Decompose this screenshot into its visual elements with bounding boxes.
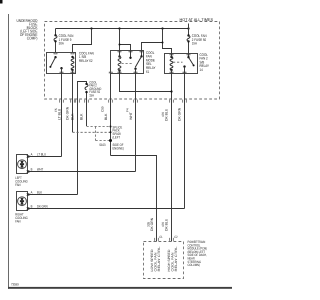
svg-text:WHT: WHT [37, 167, 43, 171]
svg-text:LT BLU: LT BLU [37, 152, 46, 156]
svg-text:470: 470 [161, 222, 165, 227]
svg-text:C1: C1 [159, 235, 162, 239]
svg-text:15A: 15A [192, 42, 198, 46]
svg-text:14: 14 [200, 68, 203, 72]
svg-text:ENGINE): ENGINE) [113, 147, 124, 151]
svg-text:S103: S103 [99, 143, 105, 147]
svg-text:BLK: BLK [71, 113, 75, 120]
svg-text:FAN: FAN [15, 183, 21, 187]
svg-text:WHT: WHT [129, 112, 133, 120]
svg-text:LT BLU: LT BLU [57, 108, 61, 120]
svg-text:F5: F5 [54, 108, 58, 112]
svg-text:335: 335 [146, 222, 150, 227]
svg-text:BLK: BLK [80, 113, 84, 120]
svg-text:HOT AT ALL TIMES: HOT AT ALL TIMES [180, 17, 214, 22]
svg-text:BLK: BLK [37, 190, 43, 194]
svg-text:RELAY 62: RELAY 62 [79, 59, 93, 63]
svg-text:61: 61 [146, 70, 149, 74]
svg-text:DK BLU: DK BLU [165, 108, 169, 121]
svg-text:COLUMN): COLUMN) [188, 263, 200, 267]
svg-text:F4: F4 [126, 108, 130, 112]
svg-text:DK GRN: DK GRN [150, 217, 154, 231]
svg-text:DK BLU: DK BLU [164, 218, 168, 231]
svg-text:73599: 73599 [11, 283, 19, 287]
svg-text:15A: 15A [89, 94, 94, 98]
svg-text:C2: C2 [174, 235, 177, 239]
svg-text:470: 470 [161, 112, 165, 117]
svg-text:C50: C50 [101, 106, 105, 112]
svg-text:FAN: FAN [15, 220, 21, 224]
svg-text:(LEFT: (LEFT [113, 136, 121, 140]
svg-text:DK GRN: DK GRN [37, 204, 48, 208]
svg-text:DK GRN: DK GRN [66, 106, 70, 120]
svg-text:COMP): COMP) [27, 36, 38, 41]
svg-text:BLK: BLK [104, 113, 108, 120]
svg-text:30A: 30A [59, 42, 65, 46]
svg-text:RELAY CTRL: RELAY CTRL [174, 246, 178, 271]
svg-text:RELAY CTRL: RELAY CTRL [157, 246, 161, 271]
svg-text:DK GRN: DK GRN [178, 107, 182, 121]
